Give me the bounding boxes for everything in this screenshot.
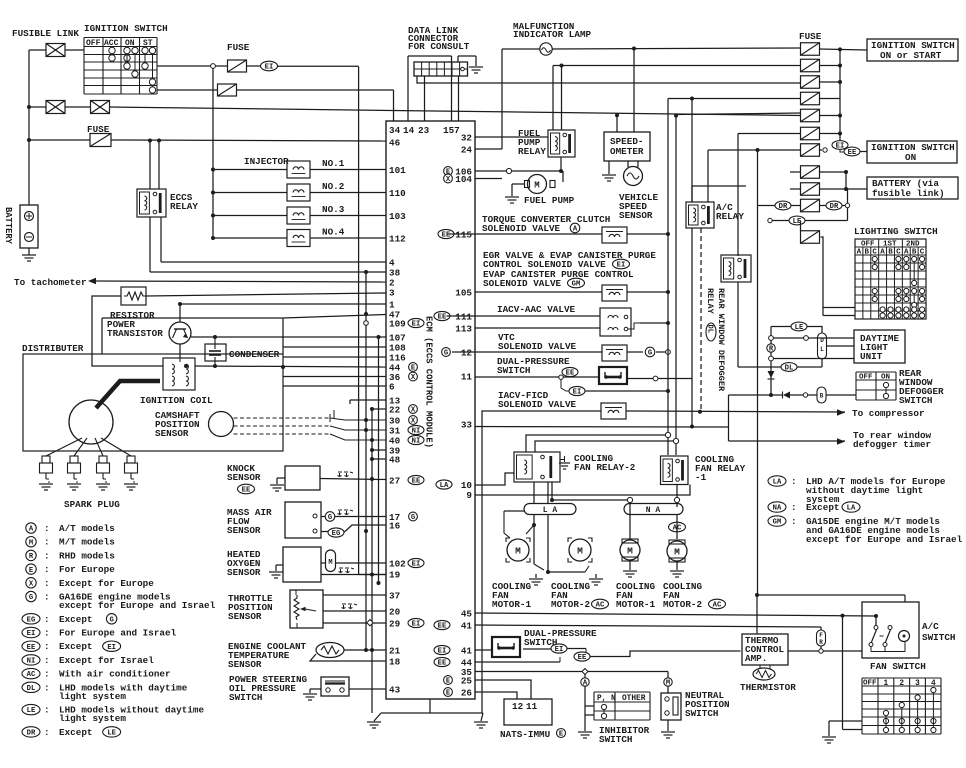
svg-text:GM: GM [572, 281, 581, 289]
svg-text:23: 23 [418, 125, 430, 136]
svg-text::: : [44, 682, 50, 693]
svg-text:RHD models: RHD models [59, 550, 115, 561]
svg-text:MOTOR-2: MOTOR-2 [663, 599, 702, 610]
svg-text:20: 20 [389, 607, 401, 618]
svg-text::: : [44, 727, 50, 738]
svg-text:33: 33 [461, 420, 473, 431]
svg-text::: : [44, 655, 50, 666]
svg-text:26: 26 [461, 688, 473, 699]
svg-text:FAN RELAY-2: FAN RELAY-2 [574, 462, 636, 473]
svg-text:SWITCH: SWITCH [599, 734, 632, 745]
svg-text:104: 104 [455, 174, 472, 185]
svg-text:B: B [865, 249, 870, 257]
svg-text:41: 41 [461, 621, 473, 632]
svg-text:SENSOR: SENSOR [227, 472, 261, 483]
svg-text:NI: NI [412, 428, 421, 436]
svg-text:11: 11 [526, 701, 538, 712]
svg-text:C: C [920, 249, 925, 257]
svg-text::: : [44, 564, 50, 575]
svg-text:B: B [888, 249, 893, 257]
svg-text:2ND: 2ND [906, 241, 920, 249]
svg-text:OTHER: OTHER [622, 695, 646, 703]
svg-text::: : [44, 641, 50, 652]
svg-text:X: X [411, 418, 416, 426]
svg-text:IGNITION SWITCH: IGNITION SWITCH [84, 23, 168, 34]
svg-text:NO.4: NO.4 [322, 227, 345, 238]
svg-text:NI: NI [412, 438, 421, 446]
svg-text::: : [791, 502, 797, 513]
svg-text:DISTRIBUTER: DISTRIBUTER [22, 343, 84, 354]
svg-text::: : [44, 578, 50, 589]
svg-text:R: R [769, 346, 774, 354]
svg-text:FUSIBLE LINK: FUSIBLE LINK [12, 28, 79, 39]
svg-text:22: 22 [389, 405, 401, 416]
svg-text:21: 21 [389, 646, 401, 657]
svg-text:Except: Except [59, 641, 92, 652]
svg-text:OFF: OFF [861, 241, 875, 249]
svg-text:AC: AC [596, 602, 605, 610]
svg-text:EG: EG [332, 530, 341, 538]
svg-text:THERMISTOR: THERMISTOR [740, 682, 796, 693]
svg-text:EE: EE [27, 644, 36, 652]
svg-text:NO.3: NO.3 [322, 204, 345, 215]
svg-text:R: R [29, 553, 34, 561]
svg-text:defogger timer: defogger timer [853, 439, 931, 450]
svg-text:INDICATOR LAMP: INDICATOR LAMP [513, 29, 592, 40]
svg-text:M: M [627, 546, 633, 557]
svg-text:SENSOR: SENSOR [228, 611, 262, 622]
svg-text:NO.2: NO.2 [322, 181, 345, 192]
svg-text:EE: EE [848, 149, 857, 157]
svg-text:To compressor: To compressor [852, 408, 925, 419]
svg-text:102: 102 [389, 559, 406, 570]
svg-text:GM: GM [773, 519, 782, 527]
svg-text:105: 105 [455, 288, 472, 299]
svg-text:SPARK PLUG: SPARK PLUG [64, 499, 120, 510]
svg-text:M: M [29, 539, 33, 547]
svg-text:SWITCH: SWITCH [229, 692, 262, 703]
svg-text:M/T models: M/T models [59, 537, 115, 548]
svg-text:112: 112 [389, 234, 406, 245]
svg-text:EE: EE [242, 487, 251, 495]
svg-text:3: 3 [915, 680, 920, 688]
svg-text:FOR CONSULT: FOR CONSULT [408, 41, 470, 52]
svg-text:SENSOR: SENSOR [228, 659, 262, 670]
svg-text:6: 6 [389, 382, 395, 393]
svg-text:Except: Except [806, 502, 839, 513]
svg-text:EE: EE [438, 660, 447, 668]
svg-text:IGNITION COIL: IGNITION COIL [140, 395, 213, 406]
svg-text:ON: ON [125, 39, 135, 48]
svg-text:DR: DR [27, 730, 36, 738]
svg-text:B: B [820, 393, 824, 400]
svg-text:With air conditioner: With air conditioner [59, 669, 171, 680]
svg-text:ST: ST [143, 39, 153, 48]
svg-text:NO.1: NO.1 [322, 158, 345, 169]
svg-text:MOTOR-1: MOTOR-1 [616, 599, 655, 610]
svg-text:MOTOR-1: MOTOR-1 [492, 599, 531, 610]
svg-text:34: 34 [389, 125, 401, 136]
svg-text:R: R [819, 639, 823, 646]
svg-text::: : [44, 523, 50, 534]
svg-text:EI: EI [573, 389, 582, 397]
svg-text:ON: ON [881, 374, 890, 382]
svg-text:SWITCH: SWITCH [922, 632, 955, 643]
svg-text:12: 12 [512, 701, 524, 712]
svg-text:NA: NA [773, 505, 782, 513]
svg-text:SOLENOID VALVE: SOLENOID VALVE [498, 341, 577, 352]
svg-text:A: A [857, 249, 862, 257]
svg-text:F: F [819, 632, 823, 639]
svg-text:LE: LE [107, 730, 116, 738]
svg-text:SOLENOID VALVE: SOLENOID VALVE [482, 223, 561, 234]
svg-text:M: M [577, 546, 583, 557]
svg-text:A: A [904, 249, 909, 257]
svg-text:G: G [109, 617, 113, 625]
svg-text:19: 19 [389, 570, 401, 581]
svg-text:SOLENOID VALVE: SOLENOID VALVE [498, 399, 577, 410]
svg-text:N A: N A [646, 506, 661, 515]
svg-text:INJECTOR: INJECTOR [244, 156, 289, 167]
svg-text::: : [44, 550, 50, 561]
svg-text:E: E [446, 690, 451, 698]
svg-text:OFF: OFF [859, 374, 873, 382]
svg-text:SENSOR: SENSOR [227, 567, 261, 578]
svg-text:EE: EE [442, 232, 451, 240]
svg-text:OFF: OFF [863, 680, 877, 688]
svg-text:To tachometer: To tachometer [14, 277, 87, 288]
svg-text:BATTERY: BATTERY [3, 207, 13, 245]
svg-text:G: G [411, 514, 415, 522]
svg-text:L: L [820, 346, 824, 353]
svg-text:E: E [411, 365, 416, 373]
svg-text:45: 45 [461, 609, 473, 620]
svg-text:43: 43 [389, 685, 401, 696]
svg-text:X: X [446, 176, 451, 184]
svg-text:DL: DL [785, 365, 794, 373]
svg-text:SENSOR: SENSOR [155, 428, 189, 439]
svg-text:G: G [444, 350, 448, 358]
svg-text:ON or START: ON or START [880, 50, 942, 61]
svg-text:EI: EI [412, 561, 421, 569]
svg-text:M: M [515, 546, 521, 557]
svg-text::: : [44, 614, 50, 625]
svg-text:4: 4 [931, 680, 936, 688]
svg-text:RELAY: RELAY [716, 211, 744, 222]
svg-text:TRANSISTOR: TRANSISTOR [107, 328, 163, 339]
svg-text:RELAY: RELAY [518, 146, 546, 157]
svg-text:115: 115 [455, 230, 472, 241]
svg-text:G: G [328, 514, 332, 522]
svg-text:For Europe and Israel: For Europe and Israel [59, 628, 177, 639]
svg-text:B: B [912, 249, 917, 257]
svg-text:MOTOR-2: MOTOR-2 [551, 599, 590, 610]
svg-text:C: C [896, 249, 901, 257]
svg-text::: : [791, 476, 797, 487]
svg-text:DL: DL [27, 685, 36, 693]
svg-text:NI: NI [27, 658, 36, 666]
svg-text:48: 48 [389, 455, 401, 466]
svg-text:12: 12 [461, 348, 473, 359]
svg-text:Except: Except [59, 727, 92, 738]
svg-text:OFF: OFF [86, 39, 101, 48]
svg-text:REAR WINDOW DEFOGGER: REAR WINDOW DEFOGGER [716, 288, 726, 392]
svg-text:FUSE: FUSE [227, 42, 250, 53]
svg-text:M: M [674, 547, 680, 558]
svg-text:OMETER: OMETER [610, 146, 644, 157]
svg-text:EI: EI [265, 64, 274, 72]
svg-text:A/T models: A/T models [59, 523, 115, 534]
svg-text:LA: LA [773, 479, 782, 487]
svg-text:18: 18 [389, 657, 401, 668]
svg-text:LE: LE [27, 707, 36, 715]
svg-text:46: 46 [389, 138, 401, 149]
svg-text:AC: AC [713, 602, 722, 610]
svg-text:EE: EE [438, 314, 447, 322]
svg-text:1: 1 [884, 680, 889, 688]
svg-text:LIGHTING SWITCH: LIGHTING SWITCH [854, 226, 938, 237]
svg-text:37: 37 [389, 591, 400, 602]
svg-text:EI: EI [107, 644, 116, 652]
svg-text:9: 9 [466, 490, 472, 501]
svg-text:AC: AC [27, 671, 36, 679]
svg-text::: : [44, 705, 50, 716]
svg-text::: : [44, 669, 50, 680]
svg-text:DR: DR [779, 203, 788, 211]
svg-text:109: 109 [389, 319, 406, 330]
svg-text:X: X [29, 581, 34, 589]
svg-text:SWITCH: SWITCH [899, 395, 932, 406]
svg-text:M: M [534, 181, 539, 191]
svg-text:light system: light system [59, 691, 126, 702]
svg-text:FAN SWITCH: FAN SWITCH [870, 661, 926, 672]
svg-text:P, N: P, N [597, 695, 616, 703]
svg-text::: : [44, 628, 50, 639]
svg-text:G: G [29, 594, 33, 602]
svg-text:3: 3 [389, 288, 395, 299]
svg-text:A: A [880, 249, 885, 257]
svg-text:light system: light system [59, 713, 126, 724]
svg-text:except for Europe and Israel: except for Europe and Israel [59, 600, 216, 611]
svg-text:2: 2 [899, 680, 904, 688]
svg-text:EG: EG [27, 616, 36, 624]
svg-text:FUSE: FUSE [799, 31, 822, 42]
svg-text:32: 32 [461, 133, 473, 144]
svg-text:RELAY: RELAY [170, 201, 198, 212]
svg-text:SENSOR: SENSOR [227, 525, 261, 536]
svg-text:EI: EI [412, 621, 421, 629]
svg-text:EE: EE [412, 478, 421, 486]
svg-text:11: 11 [461, 372, 473, 383]
svg-text:E: E [29, 567, 34, 575]
svg-text:LA: LA [847, 505, 856, 513]
svg-text:G: G [648, 350, 652, 358]
svg-text:E: E [559, 731, 564, 739]
svg-text:FUEL PUMP: FUEL PUMP [524, 195, 575, 206]
svg-text:A: A [29, 526, 34, 534]
svg-text:C: C [872, 249, 877, 257]
svg-text:Except: Except [59, 614, 92, 625]
svg-text:AMP.: AMP. [745, 653, 767, 664]
svg-text:LE: LE [795, 324, 804, 332]
svg-text:EE: EE [578, 654, 587, 662]
svg-text:103: 103 [389, 211, 406, 222]
svg-text:E: E [446, 678, 451, 686]
svg-text:X: X [411, 407, 416, 415]
svg-text::: : [44, 592, 50, 603]
svg-text:DL: DL [706, 325, 714, 333]
svg-text:DR: DR [830, 203, 839, 211]
svg-text:UNIT: UNIT [860, 351, 883, 362]
svg-text:EI: EI [438, 648, 447, 656]
svg-text:except for Europe and Israel: except for Europe and Israel [806, 534, 963, 545]
svg-text:A/C: A/C [922, 621, 939, 632]
svg-text:For Europe: For Europe [59, 564, 115, 575]
svg-text:EE: EE [438, 623, 447, 631]
svg-text:-1: -1 [695, 472, 707, 483]
svg-text:SWITCH: SWITCH [685, 708, 718, 719]
svg-text:41: 41 [461, 646, 473, 657]
svg-text:29: 29 [389, 619, 401, 630]
svg-text:Except for Israel: Except for Israel [59, 655, 154, 666]
svg-text:fusible link): fusible link) [872, 188, 945, 199]
svg-text:Except for Europe: Except for Europe [59, 578, 154, 589]
svg-text::: : [791, 516, 797, 527]
svg-text:EI: EI [412, 321, 421, 329]
svg-text:RELAY: RELAY [705, 288, 715, 315]
svg-text:157: 157 [443, 125, 460, 136]
svg-text:1ST: 1ST [883, 241, 897, 249]
svg-text:SOLENOID VALVE: SOLENOID VALVE [483, 278, 562, 289]
svg-text:ECM (ECCS CONTROL MODULE): ECM (ECCS CONTROL MODULE) [424, 316, 434, 448]
svg-text:101: 101 [389, 165, 406, 176]
svg-text:X: X [411, 374, 416, 382]
svg-text:16: 16 [389, 521, 401, 532]
svg-text:113: 113 [455, 324, 472, 335]
svg-text:14: 14 [403, 125, 415, 136]
svg-text:27: 27 [389, 476, 400, 487]
svg-text:ACC: ACC [104, 39, 119, 48]
svg-text:SWITCH: SWITCH [497, 365, 530, 376]
svg-text:IACV-AAC VALVE: IACV-AAC VALVE [497, 304, 576, 315]
svg-text::: : [44, 537, 50, 548]
svg-text:LA: LA [440, 482, 449, 490]
svg-text:SENSOR: SENSOR [619, 210, 653, 221]
svg-text:25: 25 [461, 676, 473, 687]
svg-text:NATS-IMMU: NATS-IMMU [500, 729, 550, 740]
svg-text:L A: L A [543, 506, 558, 515]
svg-text:A: A [573, 226, 578, 234]
svg-text:EI: EI [555, 646, 564, 654]
svg-text:EI: EI [27, 630, 36, 638]
svg-text:M: M [328, 559, 332, 567]
svg-text:24: 24 [461, 145, 473, 156]
svg-text:ON: ON [905, 152, 916, 163]
svg-text:111: 111 [455, 312, 472, 323]
svg-text:110: 110 [389, 188, 406, 199]
